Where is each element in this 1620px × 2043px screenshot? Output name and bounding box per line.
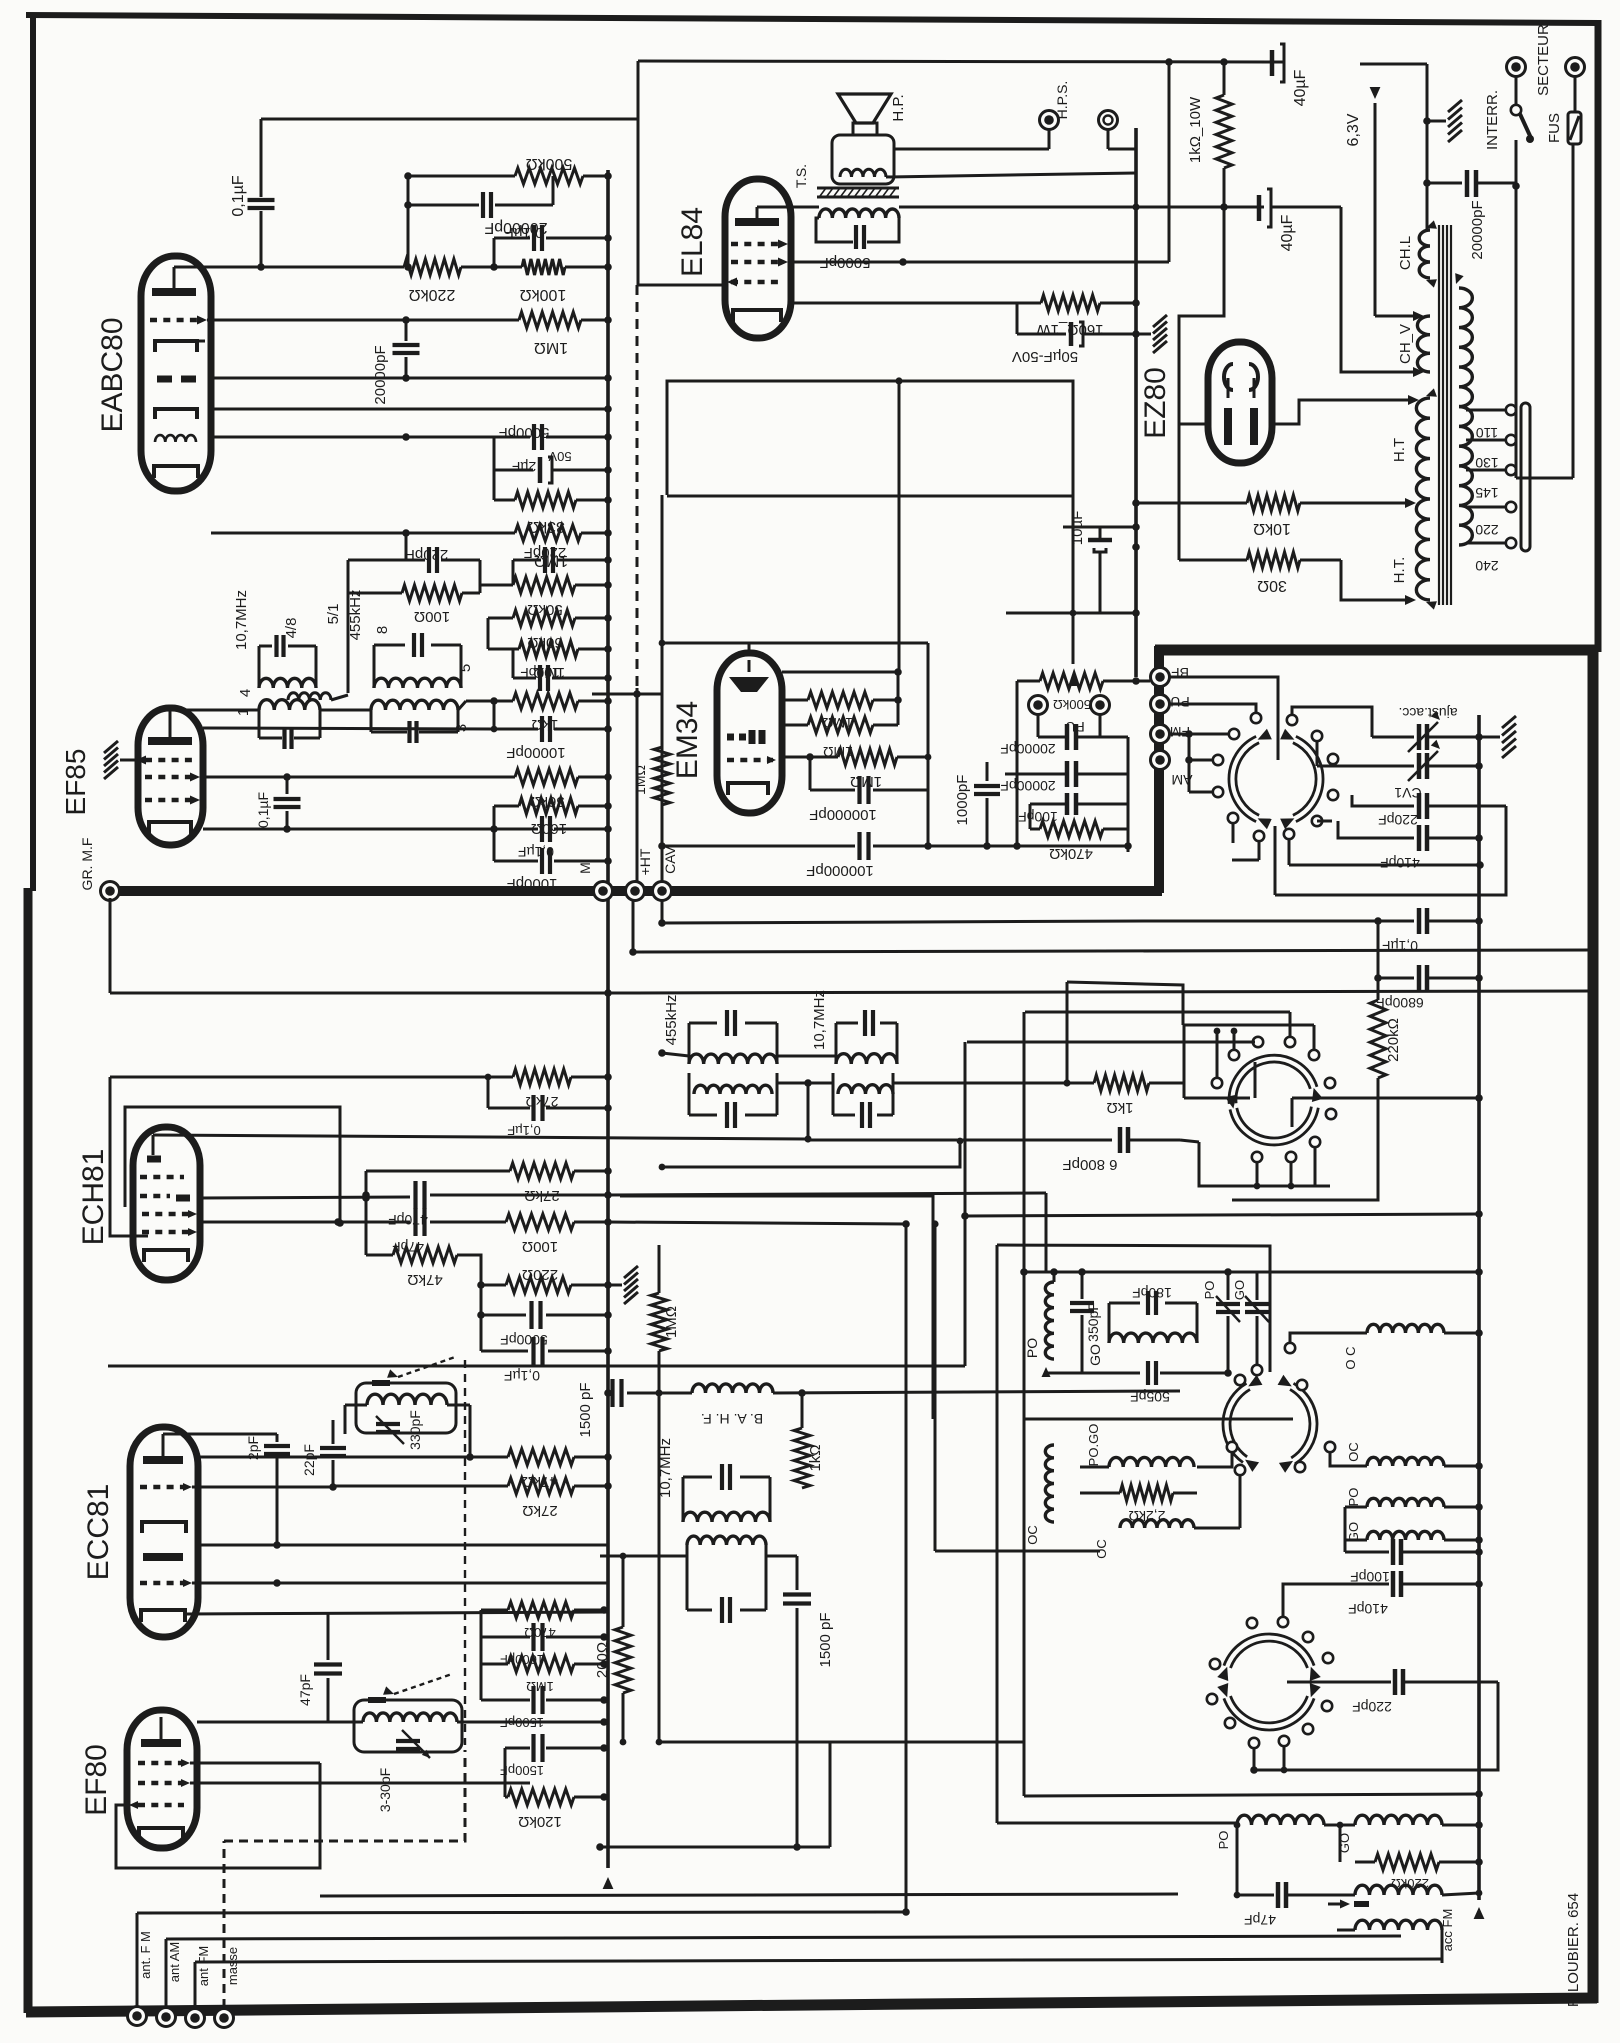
capacitor 0,1µF (osc) <box>477 1311 612 1384</box>
wire 5/1 riser <box>325 560 406 693</box>
capacitor 40µF (2) <box>1259 189 1341 251</box>
svg-text:ant. F M: ant. F M <box>138 1931 153 1979</box>
EZ80 anode wire <box>1272 395 1419 424</box>
TS primary coil <box>819 209 899 218</box>
resistor 220kΩ (ant) <box>1355 1854 1483 1891</box>
terminal H.P.S. 2 <box>1099 111 1137 150</box>
svg-text:40µF: 40µF <box>1279 214 1296 251</box>
svg-text:4/8: 4/8 <box>283 618 300 639</box>
wire <box>479 560 482 593</box>
label EF85 <box>60 749 91 816</box>
svg-text:1kΩ: 1kΩ <box>1106 1099 1133 1116</box>
svg-text:PU: PU <box>1170 694 1189 710</box>
osc coil OC vertical <box>1025 1445 1054 1545</box>
switch INTERR <box>1484 58 1534 151</box>
capacitor 100pF (AM) <box>1018 793 1128 829</box>
wire wafer1 misc <box>1274 826 1277 895</box>
svg-text:M: M <box>577 862 593 874</box>
ECH81 grid rows <box>140 1177 197 1236</box>
EF80 wiring a <box>190 1762 320 1765</box>
capacitor ajust.acc <box>1372 705 1483 752</box>
antenna wire AM <box>165 1939 168 2007</box>
primary tap 220 <box>1466 502 1516 538</box>
CH.L winding <box>1397 220 1437 287</box>
choke B.A.H.F. <box>692 1384 773 1427</box>
voltage selector bar <box>1521 403 1530 551</box>
resistor 1MΩ (3) <box>488 618 612 681</box>
wire GR.MF riser <box>109 898 112 993</box>
EF80 g2 dashed <box>138 1779 190 1787</box>
ECH81 hexode plate <box>176 1195 190 1202</box>
EM34 electrodes <box>727 730 762 744</box>
svg-text:PO: PO <box>1346 1488 1361 1507</box>
resistor 47kΩ (ECC81 a) <box>470 1449 612 1490</box>
capacitor 470pF <box>200 1171 1046 1228</box>
svg-text:GR. M.F: GR. M.F <box>79 838 95 891</box>
label EL84 <box>676 207 709 277</box>
wire GO right in <box>1345 1507 1367 1540</box>
svg-text:1MΩ: 1MΩ <box>526 1679 554 1694</box>
terminal ant FM2 <box>186 1946 212 2028</box>
IF sec coil 3 <box>371 700 470 732</box>
svg-text:6,3V: 6,3V <box>1345 113 1362 146</box>
wire 1500pF2 down <box>796 1608 799 1847</box>
coil GO right <box>1346 1522 1483 1544</box>
resistor 27kΩ (ECC81 g) <box>333 1478 612 1519</box>
capacitor 410pF (osc) <box>1278 1571 1483 1627</box>
vertical x965 <box>961 1042 969 1366</box>
EF85 g1/k line <box>203 825 498 833</box>
wire y1796 <box>1024 1790 1483 1798</box>
svg-text:ant FM: ant FM <box>196 1946 211 1986</box>
coil GO (ant) <box>1337 1815 1483 1853</box>
svg-text:20000pF: 20000pF <box>372 345 389 404</box>
fuse FUS <box>1546 58 1585 145</box>
wire BAHF out <box>773 1389 1180 1397</box>
wire 220k left <box>1339 1825 1342 1862</box>
terminal FM <box>1151 724 1191 744</box>
svg-text:330pF: 330pF <box>407 1410 423 1450</box>
svg-text:220pF: 220pF <box>1378 812 1418 828</box>
terminal M <box>577 862 613 900</box>
S1 contact f <box>1284 829 1294 839</box>
svg-text:1500pF: 1500pF <box>500 1715 544 1730</box>
long line y1895 <box>320 1894 1178 1896</box>
svg-text:FUS: FUS <box>1546 113 1563 143</box>
transformer core <box>1439 225 1451 605</box>
wire coil1-coil3 <box>320 709 371 712</box>
resistor 470kΩ <box>1030 737 1132 862</box>
S1 contact c <box>1328 754 1338 764</box>
svg-text:500kΩ: 500kΩ <box>526 155 573 172</box>
coil AM osc <box>1355 1885 1482 1896</box>
wire ECH81 osc plate line <box>153 1135 812 1143</box>
capacitor 0,1µF (to bus) <box>494 224 612 267</box>
EF85 grid g1 dashed <box>145 796 200 805</box>
vertical x933 <box>620 1196 933 1419</box>
wire wafer s2 <box>1239 1475 1242 1528</box>
FM input coil <box>345 1713 476 1722</box>
tube EL84 <box>725 179 791 338</box>
tuner box border right thick <box>1588 648 1599 2003</box>
S4 contact 7 <box>1326 1109 1336 1119</box>
svg-text:ant AM: ant AM <box>167 1942 182 1982</box>
svg-text:5/1: 5/1 <box>325 604 342 625</box>
resistor 1kΩ (3) <box>794 1393 824 1488</box>
svg-text:220kΩ: 220kΩ <box>409 286 456 303</box>
line 27kΩ <box>362 1163 612 1204</box>
ground osc <box>608 1266 638 1304</box>
EF80 g3 dashed <box>138 1759 190 1767</box>
label EF80 <box>80 1744 113 1816</box>
capacitor 1500pF (line) <box>577 1379 692 1438</box>
capacitor 350pF body <box>1070 1302 1101 1373</box>
wire CAV node <box>658 842 666 850</box>
svg-text:27kΩ: 27kΩ <box>522 1502 557 1519</box>
capacitor 20000pF mains <box>1423 170 1520 260</box>
capacitor 47pF <box>392 1208 442 1255</box>
wire wafer1 bottom g2 <box>1232 859 1259 862</box>
wire CAV lower <box>655 1389 662 1742</box>
EL84 grid g3 dashed <box>731 258 788 267</box>
ground EL84 k <box>1136 315 1167 353</box>
IF sec box 3 <box>371 710 458 743</box>
capacitor 47pF (ant) <box>1237 1882 1355 1928</box>
svg-text:1500 pF: 1500 pF <box>817 1612 834 1667</box>
tube EZ80 <box>1208 342 1272 463</box>
terminal CAV <box>653 845 679 900</box>
resistor 100Ω <box>348 585 480 625</box>
capacitor 0,1µF (EF85 k) <box>255 777 301 829</box>
terminal AM <box>1151 751 1193 789</box>
IFT4b coil <box>838 1085 893 1094</box>
line ECC81 plate1 <box>198 1453 474 1461</box>
wire S3 c1 <box>1250 1748 1258 1774</box>
tube EM34 <box>717 653 782 813</box>
long line y1913 <box>137 1908 910 1916</box>
capacitor 0,1µF (conv) <box>488 1077 612 1138</box>
IFT3 455kHz box <box>689 1023 777 1064</box>
EABC80 triode plate line <box>211 374 612 382</box>
osc coil PO vertical <box>1024 1282 1054 1359</box>
wire wafer1 h <box>1232 823 1235 843</box>
ECC81 plate bar2 <box>143 1553 183 1561</box>
capacitor 100pF <box>513 649 612 691</box>
IFT5 sec coil <box>687 1536 766 1545</box>
wire 470k node <box>1017 829 1128 852</box>
tuner box border left thick <box>1154 646 1164 893</box>
IFT 10,7MHz box <box>259 646 316 688</box>
wire osc inner <box>1197 1442 1237 1467</box>
svg-text:OC: OC <box>1025 1525 1040 1545</box>
svg-text:20000pF: 20000pF <box>1469 200 1486 259</box>
svg-text:1500pF: 1500pF <box>500 1763 544 1778</box>
tube EABC80 <box>141 256 211 491</box>
vertical x935 <box>931 1220 1100 1551</box>
S4 contact 2 <box>1229 1028 1239 1061</box>
svg-text:O C: O C <box>1343 1346 1358 1369</box>
EL84 cathode bracket <box>733 310 781 322</box>
coil PO (ant) <box>1216 1815 1324 1849</box>
coil OC 2 <box>1094 1520 1194 1559</box>
IFT3 10,7MHz cap <box>811 990 873 1050</box>
TS core <box>793 164 899 197</box>
svg-text:470pF: 470pF <box>388 1212 428 1228</box>
IFT5 cap top <box>657 1438 770 1522</box>
resistor 1kΩ-10W <box>1187 62 1232 211</box>
S3 contacts top <box>1247 1618 1333 1663</box>
IFT4 box <box>689 1073 777 1128</box>
svg-text:1000pF: 1000pF <box>954 775 971 826</box>
speaker horn <box>838 94 907 135</box>
svg-text:40µF: 40µF <box>1292 69 1309 106</box>
resistor 10kΩ <box>1247 495 1300 537</box>
wire g2 long <box>608 1220 910 1228</box>
long line y1847 <box>596 1843 830 1851</box>
wire CH.L <box>1360 64 1427 230</box>
resistor 1MΩ (EM34 gl) <box>782 749 931 790</box>
svg-text:ECH81: ECH81 <box>77 1149 110 1246</box>
capacitor 2µF 50V <box>494 437 612 483</box>
svg-text:H.P.S.: H.P.S. <box>1054 81 1070 120</box>
capacitor 22pF <box>301 1420 346 1487</box>
wire <box>461 263 522 271</box>
cap 20000pF (PU) body <box>1000 715 1128 757</box>
wire screen riser <box>1168 62 1171 262</box>
capacitor 1500pF (g) <box>481 1664 608 1730</box>
svg-text:100000pF: 100000pF <box>806 862 874 879</box>
terminal ant.FM <box>128 1931 154 2025</box>
wire +HT low line <box>629 901 1593 956</box>
capacitor 100000pF (EM34) <box>809 757 932 850</box>
wire 1k to wafer2 <box>1149 1082 1184 1085</box>
capacitor 47pF (2) <box>297 1612 342 1722</box>
svg-text:BF: BF <box>1171 665 1189 681</box>
svg-text:470kΩ: 470kΩ <box>1049 845 1093 862</box>
wire ECC81 grid1 <box>192 1483 337 1491</box>
wire HT mid <box>1300 498 1416 508</box>
EABC80 anode bracket <box>155 341 205 352</box>
wire plate line <box>261 263 412 271</box>
svg-text:220: 220 <box>1475 522 1499 538</box>
IFT3 455kHz cap <box>663 995 735 1046</box>
svg-text:SECTEUR: SECTEUR <box>1535 24 1552 96</box>
EABC80 grid g1 dashed <box>150 316 207 325</box>
svg-text:EL84: EL84 <box>676 207 709 277</box>
svg-text:220pF: 220pF <box>524 544 567 561</box>
terminal H.P.S. 1 <box>1040 81 1071 149</box>
coil acc FM <box>1355 1909 1455 1952</box>
resistor 30Ω <box>1179 552 1341 594</box>
EZ80 filament wire <box>1179 207 1224 424</box>
tube EF85 <box>138 708 203 845</box>
wire osc top right <box>1257 1268 1483 1276</box>
ECH81 plate bar <box>147 1135 161 1159</box>
wafer S3 bottom arc <box>1217 1683 1321 1730</box>
resistor 1MΩ (diode load) <box>211 525 612 569</box>
tuner box border top thick <box>1155 645 1597 656</box>
S1 contact b <box>1312 731 1322 741</box>
coil OC right <box>1346 1442 1483 1470</box>
svg-text:PO: PO <box>1202 1281 1217 1300</box>
EL84 grid g1 dashed <box>727 278 778 287</box>
capacitor 1500pF (2) <box>783 1556 834 1668</box>
capacitor 505pF body <box>1130 1361 1232 1405</box>
trimmer GO body <box>1232 1272 1269 1375</box>
S4 rotor hook b <box>1291 1098 1294 1127</box>
IFT5 coil <box>683 1512 770 1522</box>
svg-text:1500 pF: 1500 pF <box>577 1382 594 1437</box>
svg-text:masse: masse <box>225 1947 240 1985</box>
S4 contact 3 <box>1253 1037 1263 1047</box>
tube ECC81 <box>130 1427 198 1637</box>
wire S3 loopdown <box>1254 1682 1498 1770</box>
IFT3 10,7MHz box <box>836 1023 897 1064</box>
coil GO box <box>1109 1303 1197 1343</box>
EL84 plate bar <box>735 207 819 222</box>
long line y1963 <box>195 1959 1442 1962</box>
EABC80 cathode bracket <box>154 466 198 478</box>
svg-text:145: 145 <box>1475 485 1499 501</box>
capacitor 1000pF (k) <box>481 1610 608 1667</box>
svg-text:220pF: 220pF <box>406 546 449 563</box>
svg-text:CH.L: CH.L <box>1397 236 1414 270</box>
svg-text:410pF: 410pF <box>1380 855 1420 871</box>
wire EM34 top loop <box>659 640 928 757</box>
FM input coil core <box>368 1674 452 1700</box>
coil PO.GO <box>1086 1424 1194 1467</box>
wire 220k leg <box>1232 1135 1378 1200</box>
svg-text:EF85: EF85 <box>60 749 91 816</box>
IF sec box 1 <box>259 710 320 749</box>
EF85 top line to right <box>203 726 497 733</box>
svg-text:47pF: 47pF <box>1244 1912 1276 1928</box>
S4 contact 8 <box>1310 1137 1320 1186</box>
EL84 grid g2 dashed <box>731 240 788 249</box>
ground EF85 g3 <box>104 741 136 779</box>
svg-text:2µF: 2µF <box>512 459 536 475</box>
svg-text:1kΩ_10W: 1kΩ_10W <box>1187 96 1204 163</box>
wire top B+ rail <box>261 118 638 121</box>
wire spk right <box>894 148 1049 151</box>
svg-text:T.S.: T.S. <box>793 164 809 188</box>
EF85 g2 line <box>203 773 515 781</box>
IFT 455kHz box <box>374 645 461 688</box>
ECC81 grid1 dashed <box>140 1483 192 1491</box>
terminal PU(sw) <box>1151 694 1190 714</box>
EF80 g1 loop <box>116 1763 320 1868</box>
terminal GR.MF <box>79 838 120 901</box>
wire PO right in <box>1345 1506 1367 1509</box>
wire 500k to plate line <box>404 172 412 267</box>
label EM34 <box>671 701 704 779</box>
EABC80 diode plates <box>157 376 196 383</box>
EF80 g2 line <box>190 1782 530 1785</box>
svg-text:OC: OC <box>1094 1539 1109 1559</box>
FM osc coil core <box>372 1357 455 1383</box>
wire S3 c2 <box>1281 1746 1288 1773</box>
IF sec coil 1 <box>235 700 320 716</box>
S1 contact <box>1287 715 1297 725</box>
EM34 cathode bracket <box>728 783 768 795</box>
wire CAV-EM34 <box>662 845 855 848</box>
S4 contact 1 <box>1212 1028 1222 1089</box>
svg-text:100Ω: 100Ω <box>522 1238 558 1255</box>
bus B+ vertical <box>603 170 614 1889</box>
tube EF80 <box>127 1710 197 1848</box>
capacitor 40µF (1) <box>1272 44 1309 106</box>
label ECH81 <box>77 1149 110 1246</box>
resistor 1MΩ <box>519 312 612 356</box>
svg-text:1000pF: 1000pF <box>507 875 558 892</box>
S3 contacts bottom <box>1249 1701 1332 1748</box>
wire low loop <box>659 1138 964 1171</box>
acc FM core <box>1328 1900 1369 1909</box>
wire 30Ω to HT bottom <box>1341 560 1416 605</box>
wire S1 g2 <box>1292 707 1372 737</box>
resistor 1MΩ (EM34 a) <box>782 672 902 731</box>
resistor 47kΩ <box>366 1195 481 1288</box>
capacitor CV1 <box>1317 740 1483 801</box>
capacitor 20000pF 2nd <box>1000 761 1128 794</box>
long line y1216 <box>965 1210 1483 1218</box>
line ECC81 grid2 long <box>192 1579 608 1587</box>
S2 contacts <box>1235 1375 1307 1390</box>
IFT3 455kHz coil <box>689 1054 777 1064</box>
S4 contact 10 <box>1252 1152 1262 1190</box>
CH_V winding <box>1397 316 1430 372</box>
antenna wire masse <box>224 1750 465 2008</box>
svg-text:10kΩ: 10kΩ <box>1253 520 1291 537</box>
bus CAV vertical <box>661 495 664 923</box>
resistor 60kΩ <box>488 610 612 651</box>
resistor 220kΩ (acc) <box>1370 974 1402 1135</box>
tuner bus right <box>1474 1272 1485 1919</box>
resistor 220kΩ <box>404 259 461 303</box>
S4 contact 6 <box>1325 1078 1335 1088</box>
TS box <box>816 218 899 242</box>
svg-text:47kΩ: 47kΩ <box>407 1271 442 1288</box>
wire EF85 plate up <box>170 710 259 737</box>
bus +HT dashed upper <box>637 61 638 891</box>
capacitor 100pF (GO) <box>1345 1539 1483 1585</box>
EABC80 grid line <box>207 316 519 324</box>
oscillator box outline <box>1024 1012 1293 1796</box>
capacitor 0,1µF (2) <box>494 816 612 860</box>
wire wafer1 bottom path <box>1289 861 1484 869</box>
S1 contact h <box>1228 813 1238 823</box>
IFT 10,7MHz coil <box>233 590 316 697</box>
S1 contact e <box>1312 816 1322 826</box>
resistor 500kΩ (volume) <box>408 155 612 184</box>
svg-text:120kΩ: 120kΩ <box>518 1813 562 1830</box>
wire fus down <box>1516 144 1573 478</box>
FM osc coil <box>345 1394 470 1457</box>
S1 contact d <box>1328 790 1338 800</box>
capacitor 100000pF (CAV line) <box>806 832 1017 879</box>
svg-text:100000pF: 100000pF <box>809 806 877 823</box>
svg-text:100Ω: 100Ω <box>414 608 450 625</box>
EABC80 cathode line <box>211 433 410 441</box>
wire 40uF2 line <box>1224 206 1264 209</box>
wafer S2 arcs <box>1223 1375 1317 1473</box>
wire osc grid entry <box>1045 1193 1048 1272</box>
S4 contact 9 <box>1286 1152 1296 1190</box>
wire accFM left lead <box>1337 1929 1355 1932</box>
capacitor 10µF <box>1132 543 1140 551</box>
resistor 33kΩ <box>494 470 612 535</box>
wire vol left <box>1013 681 1021 850</box>
